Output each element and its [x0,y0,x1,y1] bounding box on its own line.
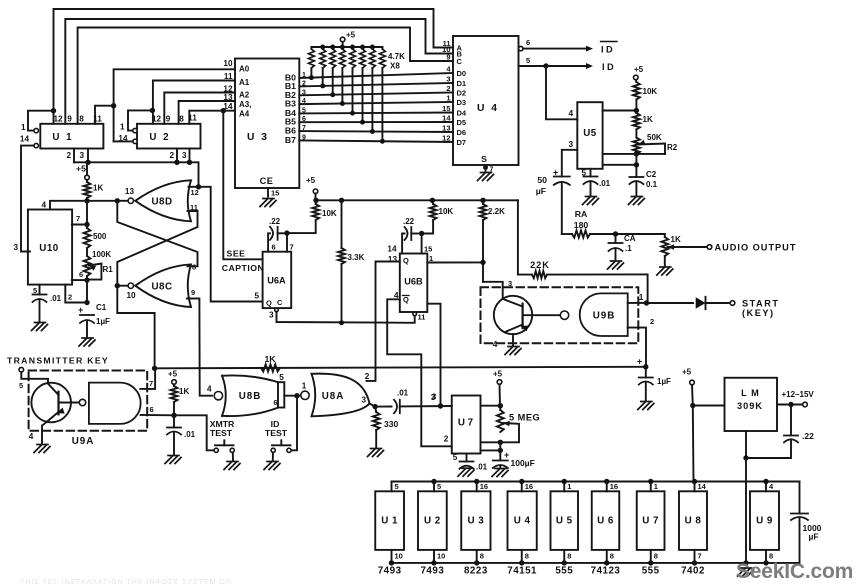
svg-text:A1: A1 [239,78,250,87]
svg-text:14: 14 [698,482,707,491]
svg-text:+: + [504,450,509,460]
svg-text:RA: RA [575,209,588,219]
svg-text:4: 4 [493,340,498,349]
svg-text:5: 5 [254,292,259,301]
svg-text:+5: +5 [493,370,503,379]
svg-text:TRANSMITTER KEY: TRANSMITTER KEY [7,356,109,366]
svg-text:A4: A4 [239,110,250,119]
svg-text:B7: B7 [285,135,296,145]
svg-text:8: 8 [610,552,614,561]
svg-text:100µF: 100µF [511,458,535,468]
svg-text:X8: X8 [390,62,400,71]
svg-text:U 6: U 6 [597,516,614,527]
svg-text:5: 5 [302,107,306,114]
svg-text:D6: D6 [457,128,467,137]
svg-text:1: 1 [567,482,571,491]
svg-text:5: 5 [19,381,23,390]
svg-text:16: 16 [525,482,533,491]
svg-text:2: 2 [446,84,450,93]
svg-text:3: 3 [508,279,512,288]
svg-text:C1: C1 [96,303,107,312]
svg-text:309K: 309K [737,401,763,411]
svg-text:U 4: U 4 [514,516,531,527]
svg-text:3: 3 [182,151,187,160]
svg-text:7: 7 [290,243,294,252]
svg-text:U 1: U 1 [381,516,398,527]
svg-text:500: 500 [93,232,107,241]
svg-text:12: 12 [442,134,450,143]
svg-text:16: 16 [480,482,488,491]
svg-text:U5: U5 [583,128,597,139]
svg-text:2: 2 [169,151,174,160]
svg-text:+5: +5 [346,31,356,40]
svg-text:+5: +5 [682,368,692,377]
svg-text:U8A: U8A [322,391,345,402]
svg-text:.22: .22 [269,217,281,226]
svg-text:2: 2 [66,151,71,160]
svg-text:1: 1 [120,123,125,132]
svg-text:1K: 1K [264,354,276,364]
svg-text:3: 3 [568,140,573,149]
svg-text:2.2K: 2.2K [488,207,505,216]
svg-text:50: 50 [537,175,547,185]
svg-text:(KEY): (KEY) [742,308,775,318]
svg-text:15: 15 [442,104,450,113]
svg-text:7493: 7493 [378,566,402,577]
svg-text:3: 3 [269,311,274,320]
svg-text:.22: .22 [403,217,415,226]
svg-text:14: 14 [442,114,451,123]
svg-text:4: 4 [41,201,46,210]
svg-text:U8B: U8B [239,391,262,402]
svg-text:6: 6 [526,38,530,47]
svg-text:3: 3 [302,89,306,96]
svg-text:.01: .01 [599,179,611,188]
svg-text:CAPTION: CAPTION [222,263,265,273]
svg-text:+5: +5 [76,164,86,174]
svg-text:1K: 1K [643,115,653,124]
svg-text:D3: D3 [457,98,467,107]
svg-text:555: 555 [642,566,660,577]
svg-text:U8D: U8D [151,197,172,208]
svg-text:.22: .22 [802,431,814,441]
svg-text:10K: 10K [643,87,658,96]
svg-text:11: 11 [188,114,197,123]
svg-text:R1: R1 [103,265,114,274]
svg-text:1: 1 [302,72,306,79]
svg-text:5: 5 [453,453,458,462]
svg-text:8: 8 [567,552,571,561]
svg-text:4: 4 [302,98,306,105]
svg-text:14: 14 [118,134,128,143]
svg-text:16: 16 [610,482,618,491]
svg-text:13: 13 [442,124,450,133]
svg-text:+12–15V: +12–15V [782,390,815,399]
svg-text:2: 2 [650,317,654,326]
svg-text:+: + [78,305,83,315]
svg-text:10: 10 [437,552,445,561]
svg-text:L M: L M [741,388,760,398]
svg-text:.1: .1 [625,244,632,253]
svg-text:9: 9 [67,115,72,124]
svg-text:1K: 1K [93,184,103,193]
svg-text:8: 8 [179,115,184,124]
svg-text:ID: ID [601,45,615,55]
svg-text:D2: D2 [457,89,467,98]
svg-text:5: 5 [526,56,530,65]
svg-text:5: 5 [279,373,284,382]
svg-text:74123: 74123 [591,566,621,577]
svg-text:1K: 1K [671,235,681,244]
svg-text:U9B: U9B [593,311,616,322]
svg-text:3: 3 [13,243,18,252]
svg-text:D0: D0 [457,69,467,78]
svg-text:1: 1 [639,293,644,302]
svg-text:13: 13 [223,93,233,102]
svg-text:6: 6 [150,405,154,414]
svg-text:15: 15 [271,189,279,198]
svg-text:6: 6 [79,270,83,279]
svg-text:330: 330 [384,419,398,429]
svg-text:+: + [637,357,642,367]
svg-text:U 3: U 3 [468,516,485,527]
svg-text:11: 11 [418,313,426,322]
svg-text:C2: C2 [646,170,657,179]
svg-text:U9A: U9A [72,436,95,447]
svg-text:U 9: U 9 [756,516,773,527]
svg-text:R2: R2 [667,143,678,152]
svg-text:22K: 22K [530,260,550,270]
svg-text:CE: CE [260,176,274,186]
svg-text:A2: A2 [239,91,250,100]
svg-text:1: 1 [654,482,658,491]
svg-text:8: 8 [654,552,658,561]
svg-text:ID: ID [602,62,616,72]
svg-text:U 5: U 5 [556,516,573,527]
svg-text:2: 2 [68,293,72,302]
svg-text:+5: +5 [168,370,178,379]
svg-text:7: 7 [76,214,80,223]
svg-text:AUDIO OUTPUT: AUDIO OUTPUT [715,243,797,253]
svg-text:555: 555 [555,566,573,577]
svg-text:74151: 74151 [507,566,537,577]
svg-text:4.7K: 4.7K [388,52,405,61]
svg-text:6: 6 [302,116,306,123]
svg-text:1: 1 [446,94,450,103]
svg-text:100K: 100K [92,250,111,259]
svg-text:12: 12 [191,188,199,197]
svg-text:µF: µF [536,186,546,196]
svg-text:.01: .01 [397,389,409,398]
svg-text:11: 11 [93,115,102,124]
svg-text:10: 10 [223,59,233,68]
svg-text:.01: .01 [184,430,196,439]
svg-text:1: 1 [302,382,307,391]
svg-text:D4: D4 [457,109,467,118]
svg-text:A3,: A3, [239,100,251,109]
svg-text:14: 14 [20,135,30,144]
svg-text:14: 14 [387,245,397,254]
svg-text:4: 4 [29,432,34,441]
svg-text:1K: 1K [179,387,189,396]
svg-text:12: 12 [53,115,63,124]
svg-text:9: 9 [191,288,195,297]
svg-text:Q: Q [403,295,409,304]
svg-text:D5: D5 [457,118,467,127]
svg-text:Q: Q [266,299,272,308]
svg-text:+5: +5 [306,176,316,185]
svg-text:TEST: TEST [265,428,288,438]
svg-text:5: 5 [437,482,441,491]
svg-text:ΤΗΙΣ ΤΕΣ ΙΝΣΤΑΛΛΑΤΙΟΝ ΤΗΕ ΙΝΦ: ΤΗΙΣ ΤΕΣ ΙΝΣΤΑΛΛΑΤΙΟΝ ΤΗΕ ΙΝΦΟΣΕ ΣΥΣΤΕΜ … [20,579,232,586]
svg-text:START: START [742,299,779,309]
svg-text:D7: D7 [457,138,467,147]
svg-text:9: 9 [446,53,450,62]
svg-text:3.3K: 3.3K [348,253,365,262]
svg-text:3: 3 [446,75,450,84]
svg-text:3: 3 [361,396,366,405]
svg-text:10K: 10K [439,207,454,216]
svg-text:U8C: U8C [151,282,172,293]
svg-text:8: 8 [525,552,529,561]
svg-text:10: 10 [395,552,403,561]
svg-text:50K: 50K [647,133,662,142]
svg-text:U6B: U6B [404,277,423,287]
svg-text:0.1: 0.1 [646,180,658,189]
svg-text:13: 13 [125,187,135,196]
svg-text:5: 5 [395,482,399,491]
svg-text:S: S [481,154,487,164]
svg-text:9: 9 [302,134,306,141]
svg-text:U 1: U 1 [52,132,73,143]
svg-text:13: 13 [388,255,398,264]
svg-text:U 7: U 7 [458,418,474,429]
svg-text:12: 12 [152,115,162,124]
svg-text:1µF: 1µF [96,317,110,326]
svg-text:1: 1 [21,123,26,132]
svg-text:U 2: U 2 [149,132,170,143]
svg-text:10: 10 [126,291,136,300]
svg-text:8223: 8223 [464,566,488,577]
svg-text:C: C [277,298,283,307]
svg-text:U 7: U 7 [642,516,659,527]
svg-text:U 3: U 3 [247,132,269,143]
svg-text:TEST: TEST [210,428,233,438]
svg-text:U 8: U 8 [685,516,702,527]
svg-text:11: 11 [224,72,233,81]
svg-text:2: 2 [444,435,449,444]
svg-text:14: 14 [223,102,233,111]
svg-text:+5: +5 [634,65,644,74]
svg-text:C: C [457,57,463,66]
svg-text:8: 8 [79,115,84,124]
svg-text:5 MEG: 5 MEG [509,413,540,423]
svg-text:U10: U10 [39,243,59,254]
svg-text:U6A: U6A [267,276,286,286]
svg-text:15: 15 [424,245,432,254]
svg-text:Q: Q [403,256,409,265]
svg-text:CA: CA [624,234,636,243]
svg-text:1µF: 1µF [657,377,671,386]
svg-text:7: 7 [302,125,306,132]
svg-text:7: 7 [698,552,702,561]
svg-text:SeekIC.com: SeekIC.com [736,560,853,583]
svg-text:2: 2 [302,80,306,87]
svg-text:µF: µF [809,532,819,542]
svg-text:6: 6 [272,243,276,252]
svg-text:.01: .01 [50,294,62,303]
svg-text:U 4: U 4 [477,103,499,114]
svg-text:6: 6 [273,398,277,407]
svg-text:A0: A0 [239,65,250,74]
svg-text:10K: 10K [322,209,337,218]
svg-text:7493: 7493 [420,566,444,577]
svg-text:SEE: SEE [227,249,246,259]
svg-text:3: 3 [79,151,84,160]
svg-text:4: 4 [568,109,573,118]
svg-text:2: 2 [365,372,370,381]
svg-text:D1: D1 [457,79,467,88]
svg-text:4: 4 [207,385,212,394]
svg-text:8: 8 [480,552,484,561]
svg-text:7402: 7402 [681,566,705,577]
svg-text:7: 7 [149,379,153,388]
svg-text:U 2: U 2 [424,516,441,527]
svg-text:3: 3 [431,393,436,402]
svg-text:9: 9 [166,115,171,124]
svg-text:.01: .01 [476,463,488,472]
